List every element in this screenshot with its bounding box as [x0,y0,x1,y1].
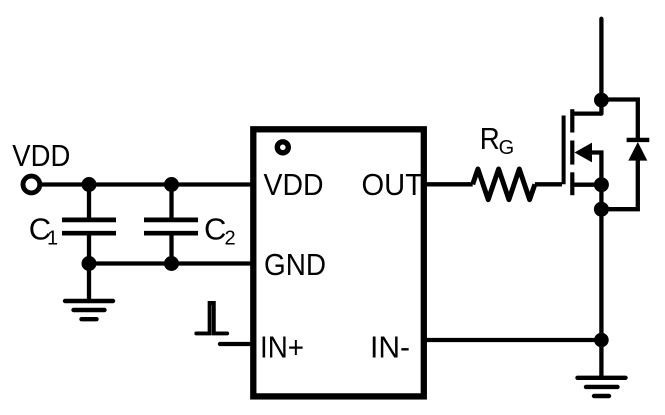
body wire [590,153,601,185]
body arrow [575,143,593,163]
wire drain up [599,19,603,114]
junction dot VDD rail / C1 [82,177,97,192]
svg-text:IN-: IN- [370,330,410,365]
svg-text:OUT: OUT [362,167,424,202]
pulse input symbol [196,303,227,334]
svg-text:1: 1 [47,228,58,250]
wire IN- rail [427,338,602,342]
channel segment bottom [570,172,574,195]
svg-text:C: C [204,212,226,247]
ground left [65,264,113,320]
capacitor C2 [144,185,198,264]
label RG [480,121,514,159]
cathode bar [627,138,650,142]
transistor Q1 (N-MOSFET) [564,109,602,195]
wire IN+ stub [220,342,253,346]
wire OUT to resistor [427,182,473,186]
wire VDD rail [40,182,253,186]
wire GND rail [89,261,253,265]
terminal VDD input [23,176,40,193]
channel segment top [570,109,574,132]
wire source down [599,185,603,340]
diode D1 (body diode) [601,100,649,210]
resistor RG [473,169,535,200]
capacitor C1 [62,185,116,264]
svg-text:GND: GND [264,247,326,282]
source link [572,183,601,187]
drain link [572,111,601,115]
junction dot GND rail / C2 [164,256,179,271]
svg-text:VDD: VDD [264,167,324,202]
svg-text:R: R [480,121,500,156]
label C1 [29,212,58,250]
wire to ground right [599,340,603,378]
svg-text:2: 2 [225,228,236,250]
label C2 [204,212,236,250]
junction dot GND rail / C1 [82,256,97,271]
svg-text:VDD: VDD [12,138,70,173]
anode triangle [628,142,647,161]
svg-text:G: G [499,137,515,159]
junction dot diode return [594,202,609,217]
junction dot IN- / source [594,333,609,348]
pin 1 marker [277,142,288,153]
ground right [578,378,626,396]
channel segment middle [570,141,574,165]
gate bar [562,116,566,185]
junction dot drain / diode [594,93,609,108]
svg-text:IN+: IN+ [260,330,304,365]
junction dot VDD rail / C2 [164,177,179,192]
junction dot source / body [594,177,609,192]
wire gate [535,182,562,186]
IC gate driver U1 [253,129,423,396]
